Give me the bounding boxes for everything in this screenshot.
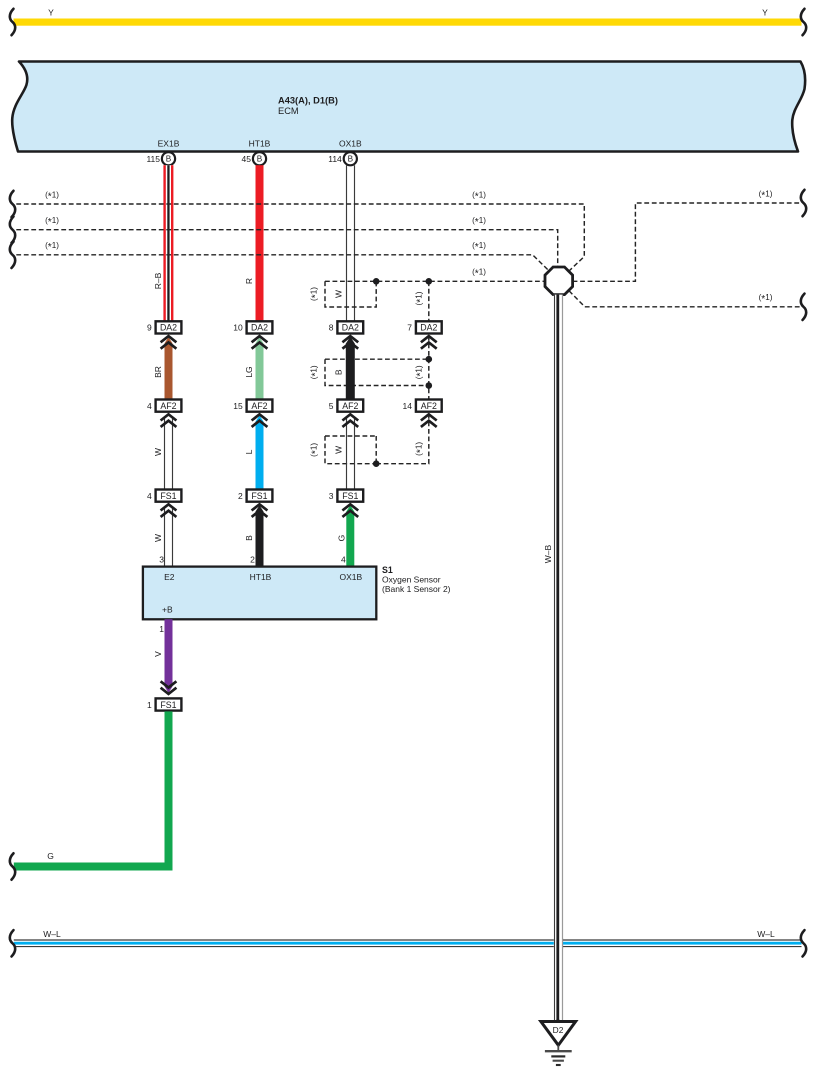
wire R (HT1B to 10 DA2)	[256, 165, 264, 321]
svg-text:Oxygen Sensor: Oxygen Sensor	[382, 575, 441, 585]
svg-text:B: B	[333, 369, 343, 375]
wire Y (yellow bus, top)	[14, 19, 802, 26]
ECM pin 115 (B)	[146, 152, 175, 165]
svg-text:DA2: DA2	[251, 323, 268, 333]
break symbol (yellow wire, right)	[801, 9, 806, 35]
svg-text:9: 9	[147, 323, 152, 333]
svg-text:B: B	[348, 155, 354, 164]
svg-text:(*1): (*1)	[472, 216, 486, 228]
junction node octagon	[545, 267, 573, 295]
connector 7 DA2	[407, 321, 441, 333]
svg-text:1: 1	[147, 700, 152, 710]
svg-text:L: L	[244, 449, 254, 454]
svg-text:ECM: ECM	[278, 106, 299, 116]
wire (*1) dashed line 3	[16, 255, 549, 271]
svg-text:AF2: AF2	[251, 401, 267, 411]
break symbol (dashed right upper)	[801, 190, 806, 216]
junction dot (429,385)	[426, 382, 433, 389]
wire G (3 FS1 to S1 pin 4)	[346, 505, 354, 566]
wire W-B overlay at W-L crossing	[554, 938, 563, 949]
svg-text:3: 3	[159, 555, 164, 565]
svg-text:(*1): (*1)	[309, 365, 321, 379]
break symbol (dashed line 2, left)	[10, 217, 15, 243]
break symbol (green wire, left)	[10, 853, 15, 879]
svg-text:OX1B: OX1B	[339, 139, 362, 149]
chevron pair below 5 AF2	[342, 414, 358, 427]
wire W-L (bottom shielded pair)	[14, 940, 802, 947]
svg-text:AF2: AF2	[342, 401, 358, 411]
svg-text:A43(A), D1(B): A43(A), D1(B)	[278, 96, 338, 106]
svg-text:(Bank 1 Sensor 2): (Bank 1 Sensor 2)	[382, 584, 451, 594]
svg-text:FS1: FS1	[251, 491, 267, 501]
junction dot (429,359)	[426, 356, 433, 363]
svg-text:W: W	[153, 534, 163, 542]
break symbol (yellow wire, left)	[10, 9, 15, 35]
svg-text:B: B	[257, 155, 263, 164]
wire LG (10 DA2 to 15 AF2)	[256, 337, 264, 399]
wire (*1) dashed right lower	[569, 291, 802, 307]
svg-text:4: 4	[147, 401, 152, 411]
svg-text:W–B: W–B	[543, 544, 553, 563]
wire B (2 FS1 to S1 pin 2)	[256, 505, 264, 566]
chevron pair below 8 DA2	[342, 336, 358, 349]
connector 3 FS1	[329, 490, 363, 502]
svg-text:DA2: DA2	[160, 323, 177, 333]
oxygen sensor S1 box	[143, 567, 376, 620]
svg-text:B: B	[166, 155, 172, 164]
wire dashed col4 vertical: node to 7 DA2	[428, 281, 430, 320]
svg-text:2: 2	[250, 555, 255, 565]
svg-text:115: 115	[146, 154, 160, 164]
dashed box around W wire (upper, *1)	[325, 281, 376, 307]
svg-text:(*1): (*1)	[472, 268, 486, 280]
svg-text:4: 4	[341, 555, 346, 565]
wire dashed col4 vertical: 14 AF2 down and left	[376, 414, 429, 464]
svg-text:AF2: AF2	[160, 401, 176, 411]
svg-text:+B: +B	[162, 605, 173, 615]
svg-text:7: 7	[407, 323, 412, 333]
svg-text:DA2: DA2	[420, 323, 437, 333]
svg-text:Y: Y	[48, 7, 54, 17]
break symbol (dashed right lower)	[801, 294, 806, 320]
svg-text:G: G	[337, 535, 347, 542]
wire (*1) dashed line 1	[16, 204, 584, 271]
chevron pair below 4 FS1	[161, 504, 177, 517]
svg-text:G: G	[47, 851, 54, 861]
svg-text:R: R	[244, 278, 254, 284]
break symbol (W-L, left)	[10, 930, 15, 956]
svg-text:R–B: R–B	[153, 272, 163, 289]
connector 9 DA2	[147, 321, 181, 333]
svg-text:V: V	[153, 651, 163, 657]
svg-text:15: 15	[233, 401, 243, 411]
wire W (4 FS1 to S1 pin 3)	[165, 507, 173, 567]
junction dot (376,281)	[373, 278, 380, 285]
chevron pair below 7 DA2	[421, 336, 437, 349]
wire L (15 AF2 to 2 FS1)	[256, 415, 264, 489]
svg-text:B: B	[244, 535, 254, 541]
wire (*1) dashed line 2	[16, 230, 557, 267]
dashed box around B wire (*1)	[325, 359, 429, 385]
svg-text:14: 14	[403, 401, 413, 411]
wire dashed col4 vertical: 7 DA2 to 14 AF2	[428, 336, 430, 399]
svg-text:(*1): (*1)	[414, 442, 426, 456]
chevron pair below 10 DA2	[252, 336, 268, 349]
svg-text:DA2: DA2	[342, 323, 359, 333]
svg-text:S1: S1	[382, 565, 393, 575]
ECM pin 114 (B)	[328, 152, 357, 165]
svg-text:(*1): (*1)	[309, 287, 321, 301]
wire W (5 AF2 to 3 FS1)	[347, 417, 355, 489]
dashed box around W wire (lower, *1)	[325, 436, 376, 464]
svg-text:FS1: FS1	[160, 700, 176, 710]
wire W-B (octagon to ground D2)	[554, 295, 563, 1022]
svg-text:(*1): (*1)	[414, 365, 426, 379]
chevron pair below 2 FS1	[252, 504, 268, 517]
svg-text:FS1: FS1	[342, 491, 358, 501]
connector 14 AF2	[403, 400, 442, 412]
svg-text:HT1B: HT1B	[250, 572, 272, 582]
svg-text:8: 8	[329, 323, 334, 333]
wire G (1 FS1 down and left to break)	[14, 711, 173, 870]
wire R-B (EX1B to 9 DA2)	[163, 165, 173, 321]
svg-text:(*1): (*1)	[414, 291, 426, 305]
wire V (S1 pin 1 to 1 FS1)	[165, 619, 173, 692]
svg-text:(*1): (*1)	[759, 293, 773, 305]
svg-text:FS1: FS1	[160, 491, 176, 501]
svg-text:LG: LG	[244, 366, 254, 377]
svg-text:W: W	[333, 290, 343, 298]
break symbol (W-L, right)	[801, 930, 806, 956]
svg-text:4: 4	[147, 491, 152, 501]
connector 10 DA2	[233, 321, 272, 333]
svg-text:(*1): (*1)	[759, 189, 773, 201]
junction dot (376,464)	[373, 460, 380, 467]
svg-text:W–L: W–L	[757, 929, 775, 939]
svg-text:E2: E2	[164, 572, 175, 582]
svg-text:(*1): (*1)	[45, 216, 59, 228]
svg-text:5: 5	[329, 401, 334, 411]
wire (*1) dashed line 4 (to octagon)	[325, 280, 545, 282]
chevron pair below 3 FS1	[342, 504, 358, 517]
svg-text:3: 3	[329, 491, 334, 501]
wire BR (9 DA2 to 4 AF2)	[165, 337, 173, 399]
connector 4 AF2	[147, 400, 181, 412]
svg-text:Y: Y	[762, 7, 768, 17]
wire W (4 AF2 to 4 FS1)	[165, 417, 173, 489]
chevron pair below 4 AF2	[161, 414, 177, 427]
label S1 Oxygen Sensor	[382, 565, 451, 594]
chevron pair below 15 AF2	[252, 414, 268, 427]
connector 1 FS1	[147, 698, 181, 710]
svg-text:W: W	[153, 448, 163, 456]
svg-text:D2: D2	[553, 1025, 564, 1035]
svg-text:W–L: W–L	[43, 929, 61, 939]
ground D2	[541, 1022, 576, 1066]
ECM box U1	[12, 62, 805, 152]
svg-text:AF2: AF2	[421, 401, 437, 411]
svg-text:2: 2	[238, 491, 243, 501]
break symbol (dashed line 1, left)	[10, 191, 15, 217]
svg-text:(*1): (*1)	[472, 190, 486, 202]
connector 5 AF2	[329, 400, 363, 412]
svg-text:(*1): (*1)	[45, 241, 59, 253]
svg-text:OX1B: OX1B	[339, 572, 362, 582]
svg-text:45: 45	[242, 154, 252, 164]
svg-text:HT1B: HT1B	[249, 139, 271, 149]
chevron pair above 1 FS1 (pointing down)	[161, 681, 177, 694]
svg-text:1: 1	[159, 624, 164, 634]
svg-text:EX1B: EX1B	[158, 139, 180, 149]
svg-text:10: 10	[233, 323, 243, 333]
wire W (OX1B to 8 DA2)	[347, 165, 355, 321]
break symbol (dashed line 3, left)	[10, 242, 15, 268]
wire (*1) dashed right upper	[573, 203, 802, 281]
svg-text:BR: BR	[153, 366, 163, 378]
chevron pair below 14 AF2	[421, 414, 437, 427]
connector 15 AF2	[233, 400, 272, 412]
svg-text:(*1): (*1)	[472, 241, 486, 253]
wire B (8 DA2 to 5 AF2)	[346, 337, 355, 399]
svg-text:114: 114	[328, 154, 342, 164]
svg-text:(*1): (*1)	[45, 190, 59, 202]
connector 2 FS1	[238, 490, 272, 502]
junction dot (429,281)	[426, 278, 433, 285]
ECM pin 45 (B)	[242, 152, 267, 165]
svg-text:W: W	[333, 446, 343, 454]
chevron pair below 9 DA2	[161, 336, 177, 349]
connector 4 FS1	[147, 490, 181, 502]
svg-text:(*1): (*1)	[309, 443, 321, 457]
connector 8 DA2	[329, 321, 363, 333]
wire B stub into ground triangle	[556, 1019, 559, 1023]
